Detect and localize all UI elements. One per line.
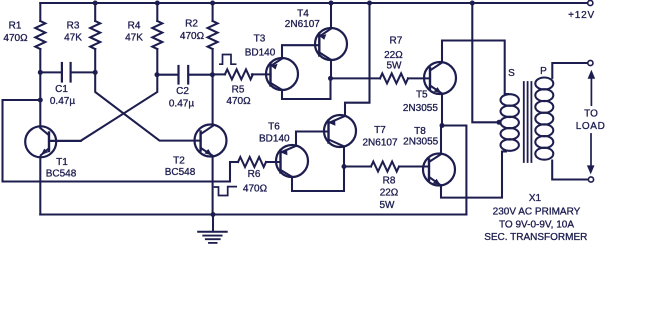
- svg-text:BD140: BD140: [259, 134, 290, 145]
- svg-text:TO: TO: [584, 109, 598, 120]
- svg-text:BD140: BD140: [245, 47, 276, 58]
- svg-text:2N6107: 2N6107: [362, 138, 397, 149]
- svg-text:+12V: +12V: [568, 10, 595, 21]
- svg-text:S: S: [508, 68, 515, 79]
- svg-text:R1: R1: [9, 21, 22, 32]
- svg-text:C1: C1: [55, 84, 68, 95]
- svg-text:230V AC PRIMARY: 230V AC PRIMARY: [493, 206, 581, 217]
- svg-text:SEC. TRANSFORMER: SEC. TRANSFORMER: [484, 232, 587, 243]
- svg-text:T5: T5: [416, 90, 428, 101]
- svg-text:C2: C2: [176, 86, 189, 97]
- svg-text:X1: X1: [529, 193, 542, 204]
- svg-text:22Ω: 22Ω: [380, 187, 399, 198]
- svg-text:R4: R4: [128, 21, 141, 32]
- svg-text:470Ω: 470Ω: [3, 33, 28, 44]
- svg-text:2N3055: 2N3055: [403, 136, 438, 147]
- svg-text:47K: 47K: [64, 33, 82, 44]
- svg-text:T1: T1: [56, 157, 68, 168]
- svg-text:5W: 5W: [387, 61, 403, 72]
- svg-text:T7: T7: [374, 125, 386, 136]
- svg-text:R5: R5: [232, 84, 245, 95]
- svg-text:T8: T8: [414, 126, 426, 137]
- svg-text:T2: T2: [173, 156, 185, 167]
- svg-text:TO 9V-0-9V, 10A: TO 9V-0-9V, 10A: [499, 219, 574, 230]
- svg-text:R8: R8: [383, 176, 396, 187]
- svg-text:470Ω: 470Ω: [243, 184, 268, 195]
- svg-text:R3: R3: [67, 21, 80, 32]
- svg-text:2N3055: 2N3055: [403, 103, 438, 114]
- svg-text:R2: R2: [185, 19, 198, 30]
- svg-text:2N6107: 2N6107: [285, 19, 320, 30]
- svg-text:22Ω: 22Ω: [384, 50, 403, 61]
- svg-text:BC548: BC548: [46, 169, 77, 180]
- svg-text:BC548: BC548: [165, 167, 196, 178]
- svg-text:0.47µ: 0.47µ: [169, 99, 194, 110]
- svg-text:470Ω: 470Ω: [180, 31, 205, 42]
- svg-text:470Ω: 470Ω: [226, 96, 251, 107]
- svg-text:5W: 5W: [380, 200, 396, 211]
- svg-text:LOAD: LOAD: [576, 121, 606, 132]
- svg-text:R7: R7: [390, 35, 403, 46]
- svg-text:47K: 47K: [125, 33, 143, 44]
- svg-text:T6: T6: [268, 122, 280, 133]
- svg-text:0.47µ: 0.47µ: [50, 96, 75, 107]
- svg-text:T4: T4: [297, 9, 309, 20]
- svg-text:T3: T3: [254, 33, 266, 44]
- svg-text:P: P: [540, 66, 547, 77]
- svg-text:R6: R6: [248, 169, 261, 180]
